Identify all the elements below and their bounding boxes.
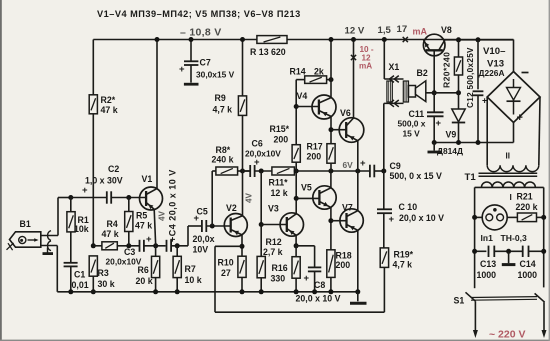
- resistor R9: [242, 40, 244, 96]
- svg-text:C9: C9: [390, 161, 401, 171]
- zener diode V9: [458, 75, 460, 109]
- wire: R3 to ground rail: [92, 276, 94, 292]
- svg-text:R16: R16: [272, 263, 288, 273]
- svg-text:C13: C13: [480, 259, 496, 269]
- node: input: [68, 195, 73, 200]
- wire: C4 to C5 jog: [171, 245, 188, 247]
- svg-text:R9: R9: [215, 93, 226, 103]
- resistor R2*: [89, 95, 97, 114]
- node and ground between C13 C14: [506, 249, 511, 254]
- ground symbol at supply return: [433, 143, 435, 151]
- wire: V6 emitter to output bus: [357, 141, 359, 171]
- svg-text:R14: R14: [290, 67, 306, 77]
- svg-text:+: +: [304, 273, 310, 284]
- wire: V5 emitter down to R18: [330, 207, 332, 249]
- svg-text:+: +: [360, 158, 366, 169]
- ground under C7: [184, 83, 199, 86]
- svg-text:500, 0 x 15 V: 500, 0 x 15 V: [390, 171, 442, 181]
- svg-text:R4: R4: [107, 219, 118, 229]
- svg-text:47 k: 47 k: [102, 229, 119, 239]
- node A after C9: [374, 170, 384, 172]
- wire: R8 to R9 node: [238, 170, 250, 172]
- svg-text:200: 200: [307, 152, 322, 162]
- svg-text:R12: R12: [266, 237, 282, 247]
- svg-text:1000: 1000: [518, 270, 538, 280]
- svg-text:200: 200: [336, 260, 351, 270]
- svg-text:B2: B2: [417, 68, 428, 78]
- svg-text:C6: C6: [252, 139, 263, 149]
- wire: left branch from rail down: [92, 40, 94, 95]
- node: V4 base: [294, 104, 299, 109]
- svg-text:+: +: [179, 64, 185, 75]
- node: V2 collector / R9: [240, 169, 245, 174]
- svg-text:C1: C1: [74, 270, 85, 280]
- node: V2 base: [206, 225, 230, 227]
- svg-text:47 k: 47 k: [135, 221, 152, 231]
- svg-text:+: +: [146, 234, 152, 245]
- svg-text:R21: R21: [517, 192, 533, 202]
- svg-text:V9: V9: [446, 130, 457, 140]
- wire: C2 to V1 base: [111, 197, 146, 199]
- wire: V4 base vertical / R14 / R15 chain: [295, 80, 297, 145]
- node: V6 base: [329, 127, 334, 132]
- svg-text:T1: T1: [465, 172, 477, 183]
- wire: V3 base / R12 branch: [260, 171, 262, 225]
- svg-text:4V: 4V: [245, 192, 254, 203]
- wire: V8 collector to bridge: [445, 39, 514, 41]
- svg-text:4V: 4V: [158, 210, 167, 221]
- node: V5 base: [294, 196, 299, 201]
- capacitor C12 with vertical label: [476, 37, 481, 42]
- wire: base node to R20/V9 divider: [426, 92, 459, 94]
- svg-text:+: +: [436, 118, 442, 129]
- wire: V5 collector to bus: [330, 171, 332, 188]
- transformer core: [479, 172, 538, 174]
- wire: feedback to R19: [215, 245, 242, 247]
- node: V2 emitter feedback tap: [240, 244, 245, 249]
- wire: mains lead right with arrow: [543, 302, 545, 331]
- svg-text:Д226А: Д226А: [479, 68, 505, 78]
- wire: mains loop top: [475, 186, 544, 188]
- wire: R2 to bias node: [92, 114, 94, 246]
- capacitor C14: [494, 250, 522, 252]
- resistor R8*: [211, 171, 213, 226]
- capacitor C4: [166, 240, 168, 252]
- capacitor C8: [296, 245, 315, 247]
- svg-text:4,7 k: 4,7 k: [213, 105, 233, 115]
- svg-text:V4: V4: [297, 91, 308, 101]
- svg-text:20 k: 20 k: [136, 276, 153, 286]
- svg-text:+C4 20,0 x 10 V: +C4 20,0 x 10 V: [168, 169, 178, 242]
- wire: R4 to C3: [117, 245, 139, 247]
- node: V3 base: [259, 222, 264, 227]
- svg-text:12 V: 12 V: [345, 26, 365, 37]
- resistor R21: [507, 216, 517, 218]
- node: V3 emitter / R16 / C8: [295, 235, 297, 246]
- svg-text:20,0x10V: 20,0x10V: [106, 257, 142, 267]
- svg-text:B1: B1: [20, 219, 31, 229]
- scan edge right: [549, 0, 550, 341]
- capacitor C6: [243, 170, 251, 172]
- wire: mains loop right wall: [543, 187, 545, 287]
- svg-text:R15*: R15*: [270, 124, 290, 134]
- node: bias divider junction: [91, 243, 96, 248]
- wire: B1 top contact up to input node: [57, 198, 59, 236]
- wire: rail to connector X1 top: [383, 40, 385, 80]
- wire: ground rail: [57, 291, 360, 293]
- capacitor C1: [70, 232, 72, 263]
- node: V8 base junction: [432, 90, 437, 95]
- svg-text:500,0 x: 500,0 x: [398, 119, 426, 129]
- wire: output bus: [294, 170, 369, 172]
- resistor R16: [295, 246, 297, 257]
- svg-text:S1: S1: [454, 296, 465, 306]
- svg-text:R18: R18: [336, 251, 352, 261]
- svg-text:mA: mA: [413, 27, 428, 37]
- svg-text:20,0 x 10 V: 20,0 x 10 V: [399, 213, 444, 223]
- resistor R17: [327, 144, 335, 164]
- wire: top negative supply rail: [93, 39, 513, 41]
- svg-text:30 k: 30 k: [98, 279, 115, 289]
- svg-text:C3: C3: [124, 247, 135, 257]
- svg-text:+: +: [517, 112, 523, 124]
- svg-text:2,7 k: 2,7 k: [263, 247, 283, 257]
- resistor R7: [176, 246, 178, 256]
- capacitor C10: [383, 171, 385, 209]
- svg-text:R6: R6: [138, 265, 149, 275]
- svg-text:12 k: 12 k: [271, 188, 288, 198]
- svg-text:10V: 10V: [193, 245, 209, 255]
- svg-text:V10–: V10–: [483, 46, 506, 57]
- svg-text:220 k: 220 k: [516, 202, 538, 212]
- svg-text:~ 220 V: ~ 220 V: [489, 329, 526, 341]
- wire: V4 emitter to R17: [330, 116, 332, 143]
- svg-text:R11*: R11*: [269, 178, 289, 188]
- resistor R15*: [292, 145, 300, 163]
- wire: V1 emitter down: [154, 209, 156, 246]
- svg-text:R3: R3: [98, 268, 109, 278]
- minus mark at bridge: [522, 72, 529, 74]
- svg-text:330: 330: [271, 274, 286, 284]
- svg-text:+: +: [389, 214, 395, 225]
- capacitor C3: [139, 240, 141, 252]
- wire: C6 to R11: [255, 170, 272, 172]
- svg-text:C14: C14: [520, 259, 536, 269]
- svg-text:30,0x15 V: 30,0x15 V: [196, 70, 235, 80]
- svg-text:20,0x10V: 20,0x10V: [245, 149, 281, 159]
- scan edge left: [0, 0, 2, 341]
- svg-text:mA: mA: [359, 62, 372, 71]
- node: V1 emitter / R6 junction: [144, 245, 166, 247]
- wire: rail corner down to bridge top: [513, 40, 515, 72]
- svg-text:C7: C7: [200, 58, 211, 68]
- svg-text:II: II: [506, 152, 510, 161]
- connector contacts at B1: [41, 235, 58, 237]
- svg-text:R8*: R8*: [216, 145, 231, 155]
- svg-text:R5: R5: [136, 211, 147, 221]
- svg-text:– 10,8 V: – 10,8 V: [180, 27, 222, 39]
- svg-text:17: 17: [397, 24, 408, 35]
- wire: V7 emitter to ground rail: [357, 230, 359, 291]
- svg-text:Iп1: Iп1: [481, 233, 494, 243]
- svg-text:4,7 k: 4,7 k: [393, 260, 413, 270]
- svg-text:V6: V6: [340, 108, 351, 118]
- svg-text:0,01: 0,01: [72, 280, 89, 290]
- wire: bridge left corner to secondary: [486, 97, 488, 165]
- wire: V8 base down: [433, 50, 435, 93]
- wire: bus node to V5 base and V3 collector: [295, 171, 297, 214]
- svg-text:+: +: [194, 213, 200, 224]
- wire: B1 bottom contact down to ground rail: [56, 246, 58, 292]
- resistor R1: [70, 198, 72, 212]
- resistor R6: [155, 246, 157, 256]
- svg-text:V2: V2: [226, 203, 237, 213]
- svg-text:20,0x: 20,0x: [193, 234, 215, 244]
- resistor R20 with vertical label: [456, 37, 461, 42]
- resistor R11*: [272, 167, 295, 175]
- wire: V7 collector to bus: [357, 171, 359, 211]
- resistor R5: [128, 198, 130, 212]
- svg-text:C12 500,0x25V: C12 500,0x25V: [466, 47, 475, 108]
- wire: mains loop left wall: [474, 187, 476, 288]
- svg-text:V5: V5: [301, 183, 312, 193]
- capacitor C13: [475, 250, 487, 252]
- wire: common return of supply: [434, 142, 513, 144]
- scan edge bottom: [0, 340, 550, 341]
- svg-text:10 k: 10 k: [185, 275, 202, 285]
- svg-text:V8: V8: [441, 25, 452, 35]
- wire: V6 collector to rail: [353, 40, 355, 119]
- svg-text:C2: C2: [108, 164, 119, 174]
- resistor R14: [296, 79, 305, 81]
- resistor R10: [241, 235, 243, 256]
- stylus mark of B1: [7, 243, 14, 250]
- node: V7 base: [328, 218, 333, 223]
- node: R5 top junction: [126, 195, 131, 200]
- svg-text:V1–V4 МП39–МП42; V5 МП38; V6–: V1–V4 МП39–МП42; V5 МП38; V6–V8 П213: [97, 9, 301, 19]
- wire: mains lead left with arrow: [474, 301, 476, 331]
- svg-text:R17: R17: [307, 142, 323, 152]
- svg-text:ТН-0,3: ТН-0,3: [501, 233, 527, 243]
- X1 plug arrows top: [390, 76, 395, 83]
- node: bus junctions: [294, 169, 299, 174]
- svg-text:C8: C8: [314, 280, 325, 290]
- wire: node A up to connector X1: [383, 103, 385, 171]
- wire: bridge right corner to secondary: [539, 97, 540, 165]
- svg-text:1,0 x 30V: 1,0 x 30V: [85, 176, 123, 186]
- neon lamp Iп1: [475, 216, 483, 218]
- capacitor C7: [190, 40, 192, 62]
- wire: input node to C2: [71, 197, 107, 199]
- svg-text:R10: R10: [218, 258, 234, 268]
- svg-text:X1: X1: [389, 62, 400, 72]
- svg-text:V3: V3: [268, 204, 279, 214]
- svg-text:20,0 x 10 V: 20,0 x 10 V: [296, 294, 341, 304]
- svg-text:R2*: R2*: [101, 95, 116, 105]
- svg-text:47 k: 47 k: [101, 105, 118, 115]
- svg-text:27: 27: [221, 268, 231, 278]
- resistor R4: [93, 245, 102, 247]
- node: R5 bottom junction: [126, 243, 131, 248]
- node: R7 top: [175, 243, 180, 248]
- X1 plug arrows bottom: [390, 100, 395, 107]
- switch linkage: [471, 296, 537, 299]
- resistor R12: [260, 225, 262, 257]
- svg-text:1,5: 1,5: [378, 25, 392, 36]
- break mark X (10-12 mA): [351, 55, 356, 60]
- svg-text:I: I: [510, 192, 512, 202]
- svg-text:+: +: [254, 157, 260, 168]
- ground symbol at ground rail: [357, 292, 359, 302]
- wire: R14 right to V4 collector line: [327, 79, 331, 81]
- svg-text:R19*: R19*: [394, 250, 414, 260]
- svg-text:C11: C11: [409, 109, 425, 119]
- svg-text:R20*240: R20*240: [442, 52, 452, 88]
- svg-text:V1: V1: [142, 174, 153, 184]
- svg-text:R7: R7: [185, 264, 196, 274]
- wire: bridge bottom to return: [513, 123, 515, 143]
- break mark X on rail (17 mA): [403, 37, 408, 42]
- svg-text:+: +: [82, 185, 88, 196]
- svg-text:15 V: 15 V: [403, 129, 421, 139]
- svg-text:C 10: C 10: [399, 202, 418, 212]
- resistor R19*: [383, 213, 385, 248]
- transformer primary winding I: [481, 182, 535, 187]
- svg-text:10k: 10k: [74, 224, 89, 234]
- svg-text:1000: 1000: [477, 270, 497, 280]
- svg-text:200: 200: [274, 135, 289, 145]
- resistor R13: [257, 36, 287, 44]
- resistor R18: [327, 250, 335, 278]
- svg-text:R 13 620: R 13 620: [250, 47, 286, 57]
- resistor R3: [89, 256, 97, 276]
- svg-text:2k: 2k: [314, 67, 324, 77]
- ground under B1: [47, 248, 49, 253]
- capacitor C11: [433, 93, 435, 113]
- svg-text:6V: 6V: [343, 160, 354, 170]
- svg-text:240 k: 240 k: [212, 155, 234, 165]
- node: V3 base branch: [259, 169, 264, 174]
